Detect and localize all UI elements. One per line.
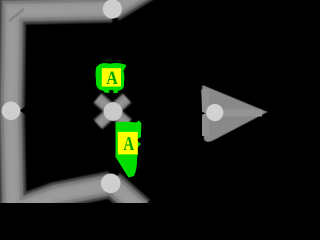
svg-text:A: A [106, 69, 118, 89]
svg-text:A: A [123, 133, 134, 155]
